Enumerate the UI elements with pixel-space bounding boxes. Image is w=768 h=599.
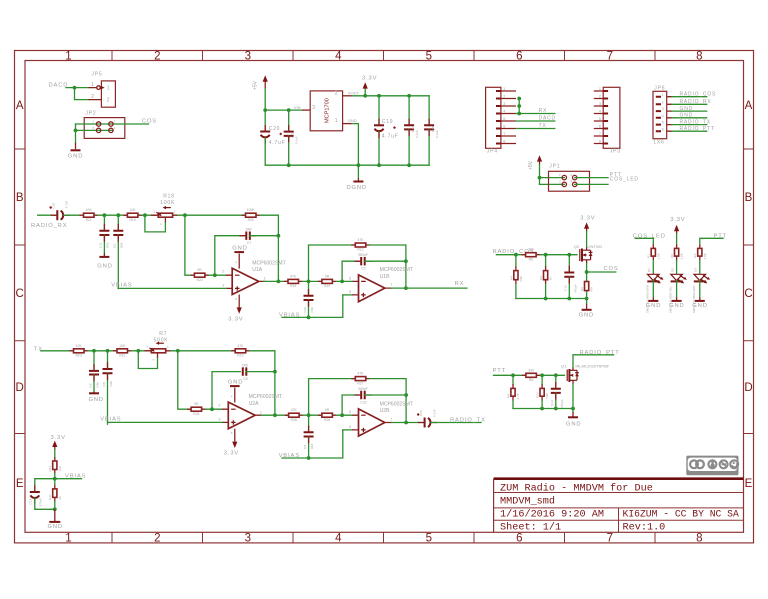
wire R7 wiper loop [138, 351, 157, 369]
junction C22 right node [404, 393, 408, 397]
junction rail C14 [554, 407, 558, 411]
svg-text:C12: C12 [564, 285, 568, 291]
svg-text:R19: R19 [129, 218, 135, 222]
svg-text:VBIAS: VBIAS [111, 283, 132, 289]
wire R28 to U2B node [303, 414, 322, 416]
ground below JP2 [68, 143, 83, 160]
transistor Q2 2N7002 [574, 244, 603, 264]
svg-text:1: 1 [559, 173, 561, 177]
svg-text:C8: C8 [102, 382, 106, 386]
svg-text:ZUM Radio - MMDVM for Due: ZUM Radio - MMDVM for Due [500, 482, 653, 494]
svg-text:VBIAS: VBIAS [100, 416, 121, 422]
LED D2 [669, 268, 687, 313]
resistor R15 47K [231, 344, 250, 358]
svg-text:6: 6 [516, 533, 522, 545]
svg-text:1: 1 [146, 345, 148, 349]
junction C8 node [106, 349, 110, 353]
svg-text:E: E [745, 478, 753, 490]
svg-text:R24: R24 [196, 278, 202, 282]
resistor R10 0R [318, 274, 337, 288]
wire 3.3V to Q2 drain [586, 232, 588, 247]
svg-text:E: E [16, 478, 24, 490]
svg-text:RX: RX [455, 281, 465, 287]
resistor R8 4.7K vertical [506, 375, 520, 409]
svg-text:U2B: U2B [380, 408, 391, 414]
ground below D3 [692, 297, 707, 309]
svg-text:C3: C3 [303, 445, 307, 449]
wire C5 right branch [246, 371, 275, 373]
svg-text:2: 2 [570, 173, 572, 177]
svg-text:470pF: 470pF [560, 399, 564, 408]
capacitor C22 980pF [354, 387, 371, 405]
ground below vbias [48, 509, 63, 530]
svg-text:5: 5 [426, 51, 432, 63]
wire VBIAS to U2A noninv [108, 421, 223, 423]
svg-text:6: 6 [599, 125, 601, 129]
svg-text:R20: R20 [248, 218, 254, 222]
svg-text:4: 4 [335, 51, 342, 63]
title block border [494, 479, 744, 533]
wire TX in [41, 350, 74, 352]
svg-text:3: 3 [312, 105, 316, 111]
frame inner border [25, 61, 744, 533]
svg-text:100K: 100K [160, 200, 175, 206]
svg-text:C9: C9 [113, 244, 117, 248]
junction U2A output node [273, 413, 277, 417]
svg-text:7: 7 [503, 132, 505, 136]
svg-text:Q2: Q2 [574, 244, 580, 249]
junction JP1 supply [538, 176, 542, 180]
svg-text:7: 7 [390, 283, 392, 287]
wire RX [516, 113, 555, 115]
svg-text:3: 3 [174, 209, 176, 213]
svg-text:47K: 47K [357, 372, 364, 376]
svg-text:PTT: PTT [493, 368, 507, 374]
svg-text:R6: R6 [529, 378, 533, 382]
svg-text:0R: 0R [325, 274, 330, 278]
wire COS out [587, 271, 616, 273]
svg-text:C: C [744, 288, 752, 300]
junction DACD node [73, 86, 77, 90]
svg-text:3: 3 [245, 533, 251, 545]
resistor R14 vertical [48, 457, 62, 474]
svg-text:1.5K: 1.5K [680, 252, 684, 259]
svg-text:1/16/2016 9:20 AM: 1/16/2016 9:20 AM [500, 509, 604, 521]
svg-text:3.3V: 3.3V [51, 435, 66, 441]
wire R23 to R11 [88, 350, 117, 352]
svg-text:C23: C23 [419, 410, 423, 416]
junction C9 node [116, 213, 120, 217]
wire R27 to output vertical [370, 379, 406, 423]
supply 3.3V LED2 [670, 217, 685, 234]
wire C22 right branch [365, 394, 406, 396]
potentiometer R18 100K [151, 193, 178, 225]
supply +5V for JP1 [528, 155, 542, 170]
wire C15 to R21 [64, 214, 80, 216]
svg-text:4.7uF: 4.7uF [432, 409, 436, 417]
svg-text:6: 6 [662, 127, 664, 131]
junction U1A output node [277, 280, 281, 284]
svg-text:3: 3 [503, 102, 505, 106]
junction C6 node [92, 349, 96, 353]
svg-text:C7: C7 [247, 241, 251, 245]
svg-text:0.1uF: 0.1uF [435, 130, 439, 138]
svg-text:B: B [745, 192, 753, 204]
junction rail C12 [567, 297, 571, 301]
svg-text:R3: R3 [539, 276, 543, 280]
resistor R19 10K [124, 208, 142, 222]
wire R7 to R15 [171, 350, 236, 352]
svg-text:RADIO_PTT: RADIO_PTT [680, 126, 715, 132]
wire JP2 row2 [76, 129, 113, 131]
wire R13 to U1B node [303, 280, 322, 282]
resistor R11 10K [113, 344, 131, 358]
junction C2 right node [404, 259, 408, 263]
junction R22 node [540, 373, 544, 377]
svg-text:1: 1 [65, 51, 71, 63]
LED D1 [645, 268, 663, 313]
svg-text:3.3V: 3.3V [670, 217, 685, 223]
LED D3 [692, 268, 710, 313]
svg-text:3.3V: 3.3V [224, 451, 239, 457]
wire GND stub 2 [672, 117, 707, 119]
svg-text:GND: GND [89, 397, 104, 403]
wire R2led to D2 [676, 260, 678, 273]
resistor R6 330 [522, 368, 541, 382]
svg-text:TX: TX [539, 123, 547, 129]
svg-text:RX: RX [539, 108, 548, 114]
svg-text:4: 4 [599, 110, 601, 114]
wire U2A output [261, 414, 289, 416]
resistor R3led 1.5K vertical [693, 245, 707, 261]
svg-text:MCP6002SMT: MCP6002SMT [380, 267, 413, 273]
svg-text:3.3V: 3.3V [580, 216, 595, 222]
svg-text:GND: GND [348, 118, 357, 123]
svg-text:2: 2 [114, 120, 116, 124]
frame column numbers bottom [65, 533, 702, 545]
svg-text:JP3: JP3 [610, 149, 621, 155]
svg-text:R2: R2 [580, 287, 584, 291]
svg-text:1: 1 [65, 533, 71, 545]
wire R18 wiper loop [145, 215, 166, 232]
wire R27 feedback up [309, 379, 356, 416]
svg-text:8: 8 [599, 140, 601, 144]
svg-text:1: 1 [91, 82, 95, 88]
svg-text:6: 6 [503, 125, 505, 129]
wire RADIO_COS stub [672, 96, 707, 98]
junction C21 top [287, 108, 291, 112]
svg-text:GND: GND [48, 524, 63, 530]
svg-text:U1B: U1B [380, 274, 391, 280]
svg-text:47K: 47K [290, 274, 297, 278]
svg-text:GND: GND [646, 303, 661, 309]
resistor R22 DNI vertical [536, 375, 550, 409]
capacitor C20 4.7uF [260, 125, 285, 146]
svg-text:1: 1 [260, 410, 262, 414]
svg-text:4: 4 [662, 114, 664, 118]
wire C2 left branch [342, 261, 359, 281]
svg-text:0R: 0R [194, 402, 199, 406]
svg-text:R18: R18 [163, 193, 175, 199]
svg-text:GND: GND [692, 303, 707, 309]
svg-text:JP4: JP4 [487, 149, 498, 155]
frame column ticks bottom [112, 532, 655, 543]
junction R7 wiper node [136, 349, 140, 353]
svg-text:R10: R10 [324, 284, 330, 288]
wire RADIO_COS in [496, 254, 526, 256]
wire C22 left branch [342, 395, 359, 415]
svg-text:2: 2 [222, 270, 224, 274]
wire R12 feedback up [309, 245, 356, 281]
svg-text:7: 7 [390, 418, 392, 422]
capacitor C15 4.7uF polarized [50, 200, 71, 220]
resistor R25 0R [187, 402, 205, 416]
junction rail R3 [544, 297, 548, 301]
svg-text:GND: GND [669, 303, 684, 309]
wire PTT in [494, 374, 527, 376]
wire C13 bottom to gnd node [35, 498, 55, 509]
capacitor C18 [424, 96, 439, 165]
svg-text:Sheet: 1/1: Sheet: 1/1 [500, 522, 561, 534]
svg-text:C11: C11 [99, 242, 103, 248]
svg-text:DNI: DNI [310, 444, 314, 449]
junction +5V node [263, 108, 267, 112]
pin VIN [302, 109, 310, 111]
svg-text:GND: GND [228, 380, 243, 386]
capacitor C21 [284, 110, 299, 165]
svg-text:C20: C20 [269, 126, 281, 132]
svg-text:R17: R17 [48, 494, 52, 500]
wire D1 to gnd [652, 280, 654, 297]
capacitor C8 to VBIAS [102, 351, 113, 424]
svg-text:GND: GND [680, 106, 694, 112]
capacitor C19 4.7uF [374, 94, 399, 165]
junction U1B input node [307, 280, 311, 284]
svg-text:C6: C6 [88, 383, 92, 387]
connector JP1 [549, 164, 590, 192]
wire JP1 pin4 COS_LED [575, 183, 608, 185]
connector JP4 [486, 87, 516, 155]
frame row ticks right [744, 149, 754, 434]
resistor R13 47K [284, 274, 303, 288]
svg-text:JP6: JP6 [654, 85, 665, 91]
wire JP4 pins 2-4 vertical [518, 99, 520, 114]
svg-text:R23: R23 [76, 354, 82, 358]
svg-text:D2: D2 [670, 268, 674, 272]
wire U1A output [264, 280, 288, 282]
svg-text:RADIO_RX: RADIO_RX [31, 223, 67, 229]
wire C2 right branch [365, 260, 406, 262]
junction rail DGND [357, 163, 361, 167]
svg-text:DGND: DGND [347, 185, 367, 191]
svg-text:2N7002: 2N7002 [588, 244, 603, 249]
svg-text:GND: GND [680, 113, 694, 119]
op-amp U1A [222, 260, 285, 294]
svg-text:1X6: 1X6 [653, 140, 664, 146]
svg-text:R2: R2 [670, 254, 674, 258]
junction JP4 pin3 [517, 104, 521, 108]
resistor R21 10K [80, 208, 99, 222]
svg-text:1: 1 [264, 277, 266, 281]
svg-text:1: 1 [92, 120, 94, 124]
svg-text:VOUT: VOUT [348, 90, 360, 95]
wire VBIAS to C13 [35, 479, 55, 492]
resistor R3 1K vertical [539, 255, 553, 299]
U1A 3.3V pin below [228, 295, 243, 323]
wire VBIAS stub right [55, 478, 82, 480]
svg-text:1: 1 [662, 93, 664, 97]
svg-text:2: 2 [151, 359, 155, 361]
junction VBIAS C3 [307, 456, 311, 460]
svg-text:2: 2 [159, 223, 163, 225]
svg-text:47K: 47K [590, 286, 594, 292]
svg-text:10K: 10K [76, 344, 83, 348]
svg-text:COS_LED: COS_LED [610, 177, 639, 183]
svg-text:Q1: Q1 [561, 363, 567, 368]
svg-text:KI6ZUM - CC BY NC SA: KI6ZUM - CC BY NC SA [623, 509, 739, 520]
svg-text:R1: R1 [647, 254, 651, 258]
svg-text:980pF: 980pF [358, 387, 368, 391]
svg-text:47K: 47K [291, 408, 298, 412]
connector JP3 [594, 87, 621, 155]
svg-text:DNI: DNI [242, 363, 248, 367]
svg-text:470uF: 470uF [39, 498, 43, 507]
supply 3.3V vbias [51, 435, 66, 450]
wire +5V down [264, 89, 266, 131]
svg-text:DNI: DNI [109, 381, 113, 386]
svg-text:5: 5 [426, 533, 432, 545]
resistor R2 47K on source [580, 282, 594, 293]
junction gnd node vbias [53, 507, 57, 511]
svg-text:C13: C13 [28, 499, 32, 505]
op-amp U1B [349, 267, 413, 302]
svg-text:8: 8 [503, 140, 505, 144]
wire ground rail [265, 164, 429, 166]
svg-text:DNI: DNI [545, 393, 549, 398]
wire R24 to U1A inv input [209, 274, 226, 276]
svg-text:3: 3 [662, 107, 664, 111]
svg-text:3: 3 [599, 102, 601, 106]
wire R6 to gate Q1 [540, 374, 564, 376]
wire U2B output to C23 [392, 422, 423, 424]
op-amp U2A [218, 394, 282, 429]
svg-text:470pF: 470pF [573, 284, 577, 293]
svg-text:C5: C5 [243, 377, 247, 381]
svg-text:MCP1700: MCP1700 [325, 98, 331, 123]
svg-text:10K: 10K [58, 465, 62, 471]
potentiometer R7 500K [145, 331, 172, 361]
junction C7 right node [277, 234, 281, 238]
resistor R20 100K [242, 208, 261, 222]
wire JP1 pin2 PTT [575, 177, 608, 179]
svg-text:DNI: DNI [120, 243, 124, 248]
wire D3 to gnd [699, 280, 701, 297]
resistor R28 47K [285, 408, 304, 422]
ground below COS rail [579, 299, 594, 319]
frame row letters left [16, 100, 24, 490]
svg-text:2: 2 [107, 98, 111, 104]
wire COS ground rail [516, 298, 587, 300]
svg-text:R26: R26 [324, 418, 330, 422]
svg-text:2: 2 [662, 100, 664, 104]
svg-text:R13: R13 [290, 284, 296, 288]
wire R1 to D1 [652, 260, 654, 273]
svg-text:C22: C22 [360, 401, 366, 405]
resistor R24 0R [191, 268, 209, 282]
wire VBIAS row U2B [282, 430, 343, 458]
junction rail R22 [540, 407, 544, 411]
ground DGND [347, 165, 367, 191]
svg-text:R14: R14 [48, 466, 52, 472]
svg-text:4: 4 [503, 110, 505, 114]
wire PTT to R3led [700, 238, 723, 245]
svg-text:COS: COS [604, 266, 619, 272]
wire +5V to JP1 [539, 165, 541, 185]
svg-text:5: 5 [599, 117, 601, 121]
wire C7 left branch [215, 236, 244, 276]
svg-text:R8: R8 [506, 394, 510, 398]
wire U2B noninv input [343, 429, 352, 431]
op-amp U2B [349, 401, 413, 436]
svg-text:R11: R11 [119, 354, 125, 358]
wire R21 to R19 [98, 214, 128, 216]
svg-text:JP5: JP5 [91, 71, 102, 77]
svg-text:980pF: 980pF [358, 253, 368, 257]
wire R26 to U2B inv [336, 414, 352, 416]
svg-text:3.3V: 3.3V [362, 76, 377, 82]
wire GND stub 1 [672, 110, 707, 112]
svg-text:3: 3 [167, 345, 169, 349]
transistor Q1 IRLML2020TRPBF [561, 363, 610, 384]
pin VOUT [343, 95, 352, 97]
junction JP4 pin2 [517, 97, 521, 101]
svg-text:RADIO_TX: RADIO_TX [680, 120, 711, 126]
connector JP6 [653, 85, 672, 145]
junction C22 left node [340, 413, 344, 417]
svg-text:C2: C2 [361, 267, 365, 271]
frame outer border [15, 51, 754, 543]
junction U2A input node [176, 349, 180, 353]
svg-text:U1A: U1A [252, 267, 263, 273]
svg-text:5: 5 [662, 121, 664, 125]
ground below C11 [97, 253, 112, 269]
svg-text:DNI: DNI [246, 228, 252, 232]
wire C20 bottom [264, 138, 266, 165]
svg-text:C10: C10 [303, 307, 307, 313]
svg-text:1: 1 [335, 118, 339, 124]
svg-text:RADIO_RX: RADIO_RX [680, 99, 712, 105]
junction U1A input node [183, 213, 187, 217]
wire Q1 source down [572, 384, 574, 408]
svg-text:R4: R4 [509, 276, 513, 280]
wire RADIO_RX in [38, 214, 56, 216]
resistor R27 47K [351, 372, 370, 386]
junction C14 node [554, 373, 558, 377]
junction R3 node [544, 253, 548, 257]
IC MCP1700 [310, 91, 342, 131]
svg-text:1.5K: 1.5K [656, 252, 660, 259]
capacitor C6 to GND [88, 351, 99, 392]
svg-text:JP2: JP2 [85, 110, 96, 116]
svg-text:GND: GND [68, 153, 83, 159]
svg-text:2: 2 [599, 95, 601, 99]
junction C5 right node [273, 370, 277, 374]
junction JP4 pin4 [517, 112, 521, 116]
resistor R5 330 [522, 248, 541, 262]
svg-text:100K: 100K [247, 208, 256, 212]
U1A ground pin above [232, 246, 247, 269]
ground below D2 [669, 297, 684, 309]
